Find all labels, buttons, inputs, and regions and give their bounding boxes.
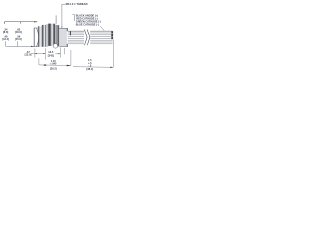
svg-text:[12.4]: [12.4] (2, 37, 9, 41)
svg-text:BLUE CATHODE (-): BLUE CATHODE (-) (76, 23, 99, 26)
body band E mid (45, 25, 46, 47)
svg-text:[8.6]: [8.6] (3, 30, 8, 34)
svg-text:13.5: 13.5 (48, 50, 54, 54)
body band G dark (hex) (48, 24, 51, 46)
body band K dark (58, 25, 60, 46)
rear bushing ticks (66, 28, 69, 31)
leader line upper-left to lens top (5, 21, 38, 23)
svg-text:M14 X 1 THREAD: M14 X 1 THREAD (66, 2, 88, 6)
lower-right dimension y67.2 (73, 66, 113, 69)
leader drops from stacks to lower leader (5, 41, 7, 46)
cable break zigzags (84, 30, 87, 46)
vertical pin/leader above hex section (55, 15, 57, 23)
wire end bar (111, 31, 113, 33)
svg-text:[12.0]: [12.0] (25, 53, 32, 57)
lens dome arc (37, 28, 39, 46)
leader line lower-left to body bottom corner (6, 45, 34, 47)
svg-text:[343]: [343] (48, 53, 54, 57)
extension lines below body (34, 48, 36, 57)
body band D light (44, 25, 45, 47)
body band F light (46, 24, 48, 47)
component front face (33, 28, 35, 47)
body band B light gradient (39, 26, 42, 47)
body band I dark (53, 24, 55, 46)
body band H mid gradient (51, 24, 54, 46)
svg-text:[29.2]: [29.2] (50, 68, 57, 71)
lower-left dimension y65.2 (39, 64, 71, 67)
svg-text:[16.0]: [16.0] (15, 30, 22, 34)
body band A dark edge (37, 26, 40, 47)
set screw circle (53, 44, 58, 49)
wires (8 lines) (68, 31, 113, 44)
body band C dark (42, 25, 44, 47)
svg-text:+.045: +.045 (50, 63, 57, 66)
svg-text:[15.0]: [15.0] (15, 37, 22, 41)
svg-text:[38.1]: [38.1] (87, 68, 94, 71)
body band J grey gradient (55, 25, 57, 46)
threaded stud (59, 28, 67, 46)
wire bundle root dark blob (70, 31, 71, 35)
